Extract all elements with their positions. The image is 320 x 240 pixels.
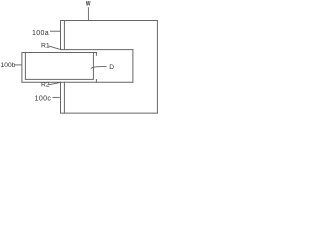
leader 100c — [53, 96, 60, 98]
leader R2 — [49, 83, 60, 85]
svg-text:100a: 100a — [32, 30, 49, 37]
plate inner line lower segment (node 100c) — [63, 82, 65, 114]
W bottom edge — [60, 112, 158, 114]
slot end wall — [132, 49, 134, 82]
svg-text:R1: R1 — [41, 43, 50, 50]
box 100b right end face top stub — [95, 52, 97, 56]
svg-text:W: W — [86, 1, 91, 8]
svg-text:100b: 100b — [1, 62, 16, 69]
W right edge — [156, 20, 158, 114]
svg-text:D: D — [109, 64, 114, 71]
box 100b inner left wall — [24, 52, 26, 80]
W top edge — [60, 20, 158, 22]
slot top edge — [60, 49, 133, 51]
cavity floor — [25, 78, 94, 80]
leader W — [87, 7, 89, 20]
leader R1 — [49, 46, 60, 49]
box 100b outer left wall — [21, 52, 23, 83]
box 100b inner right wall — [92, 52, 94, 80]
svg-text:R2: R2 — [41, 81, 50, 88]
workpiece W outline — [22, 20, 158, 114]
leader D — [91, 67, 107, 69]
plate inner line upper segment (node 100a) — [63, 20, 65, 50]
box 100b right end face bottom stub — [95, 79, 97, 83]
W left edge lower segment — [60, 82, 62, 114]
leader 100b — [15, 64, 22, 66]
svg-text:100c: 100c — [35, 95, 52, 102]
W left edge upper segment — [60, 20, 62, 50]
box 100b top edge — [22, 52, 97, 54]
leader 100a — [50, 30, 60, 32]
slot bottom edge and box bottom — [22, 81, 134, 83]
